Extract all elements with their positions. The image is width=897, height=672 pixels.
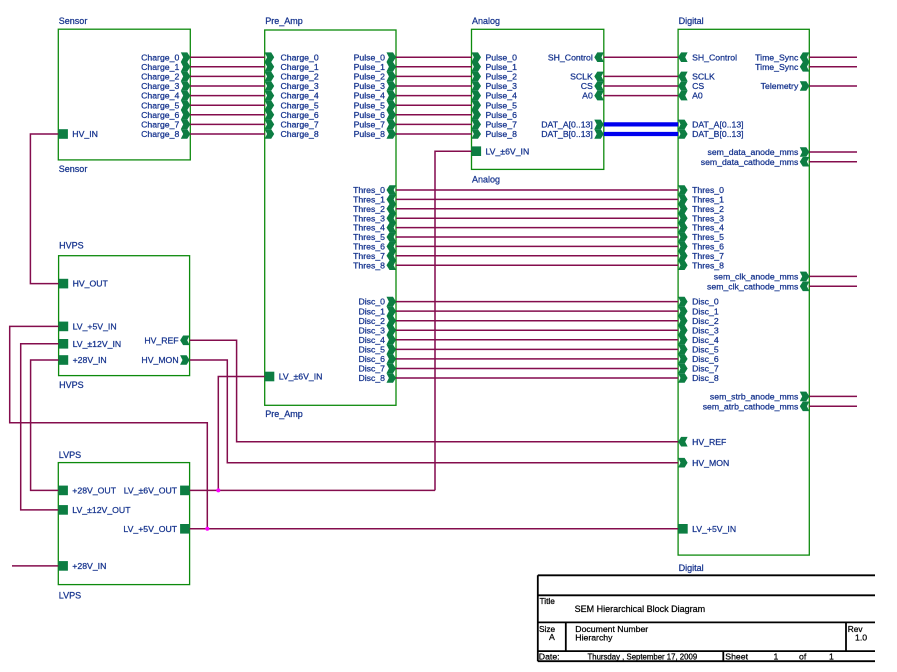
pin Pulse_4 (Pre_Amp right edge) bbox=[387, 91, 397, 101]
svg-text:Disc_1: Disc_1 bbox=[358, 306, 385, 316]
pin Pulse_8 (Pre_Amp right edge) bbox=[387, 129, 397, 139]
pin Thres_0 (Digital left edge) bbox=[678, 185, 688, 195]
svg-text:HV_OUT: HV_OUT bbox=[73, 279, 109, 289]
bus DAT_B[0..13] Analog to Digital bbox=[604, 132, 678, 136]
pin Pulse_1 (Pre_Amp right edge) bbox=[387, 62, 397, 72]
svg-text:Telemetry: Telemetry bbox=[761, 81, 799, 91]
wire LV_±6V net: LVPS LV_±6V_OUT to riser bbox=[190, 489, 435, 491]
wire Disc_6 net Pre_Amp to Digital bbox=[396, 358, 678, 360]
pin Thres_7 (Digital left edge) bbox=[678, 251, 688, 261]
wire Charge_5 net Sensor to Pre_Amp bbox=[190, 104, 264, 106]
wire Telemetry stub from Digital right edge bbox=[809, 85, 857, 87]
wire A0 net Analog to Digital bbox=[604, 95, 678, 97]
pin HV_OUT (HVPS left edge) bbox=[59, 279, 69, 289]
svg-text:Digital: Digital bbox=[679, 16, 704, 26]
pin Time_Sync (Digital right edge, upper) bbox=[800, 52, 810, 62]
wire Charge_7 net Sensor to Pre_Amp bbox=[190, 123, 264, 125]
svg-text:Disc_8: Disc_8 bbox=[358, 373, 385, 383]
svg-text:of: of bbox=[799, 651, 807, 661]
pin Charge_8 (Sensor right edge) bbox=[181, 129, 191, 139]
wire Pulse_2 net Pre_Amp to Analog bbox=[396, 75, 472, 77]
svg-text:Disc_2: Disc_2 bbox=[692, 316, 719, 326]
svg-text:LV_+5V_IN: LV_+5V_IN bbox=[692, 524, 736, 534]
svg-text:Pulse_0: Pulse_0 bbox=[486, 52, 518, 62]
svg-text:sem_atrb_cathode_mms: sem_atrb_cathode_mms bbox=[703, 401, 799, 411]
pin Pulse_0 (Pre_Amp right edge) bbox=[387, 52, 397, 62]
pin Pulse_7 (Pre_Amp right edge) bbox=[387, 120, 397, 130]
svg-text:+28V_IN: +28V_IN bbox=[73, 355, 107, 365]
junction LV_+5V net bbox=[205, 527, 209, 531]
pin Disc_0 (Digital left edge) bbox=[678, 297, 688, 307]
svg-text:Disc_7: Disc_7 bbox=[358, 364, 385, 374]
svg-text:HVPS: HVPS bbox=[59, 241, 84, 251]
pin Disc_7 (Pre_Amp right edge) bbox=[387, 364, 397, 374]
hierarchical block Sensor outline bbox=[58, 29, 190, 160]
pin sem_strb_anode_mms (Digital right edge) bbox=[800, 392, 810, 402]
svg-text:Pre_Amp: Pre_Amp bbox=[265, 16, 303, 26]
svg-text:Disc_3: Disc_3 bbox=[358, 325, 385, 335]
pin Thres_1 (Pre_Amp right edge) bbox=[387, 195, 397, 205]
pin Thres_7 (Pre_Amp right edge) bbox=[387, 251, 397, 261]
pin A0 (Digital left edge) bbox=[678, 91, 688, 101]
svg-text:Pulse_5: Pulse_5 bbox=[354, 100, 386, 110]
pin DAT_B[0..13] (Analog right edge) bbox=[594, 129, 604, 139]
pin Disc_4 (Pre_Amp right edge) bbox=[387, 335, 397, 345]
svg-text:LVPS: LVPS bbox=[59, 450, 81, 460]
svg-text:Disc_5: Disc_5 bbox=[692, 345, 719, 355]
svg-text:LV_±6V_OUT: LV_±6V_OUT bbox=[124, 486, 178, 496]
wire Thres_7 net Digital to Pre_Amp bbox=[396, 255, 678, 257]
pin Thres_3 (Digital left edge) bbox=[678, 213, 688, 223]
svg-text:LV_±6V_IN: LV_±6V_IN bbox=[486, 146, 530, 156]
svg-text:Pulse_1: Pulse_1 bbox=[354, 62, 386, 72]
wire sem_data_anode_mms stub from Digital right edge bbox=[809, 151, 857, 153]
svg-text:Date:: Date: bbox=[539, 651, 560, 661]
svg-text:LV_±12V_OUT: LV_±12V_OUT bbox=[72, 505, 131, 515]
wire Charge_8 net Sensor to Pre_Amp bbox=[190, 133, 264, 135]
wire Thres_0 net Digital to Pre_Amp bbox=[396, 189, 678, 191]
wire Disc_7 net Pre_Amp to Digital bbox=[396, 367, 678, 369]
pin Thres_5 (Digital left edge) bbox=[678, 232, 688, 242]
pin HV_IN (Sensor left edge) bbox=[58, 129, 68, 139]
pin Thres_2 (Digital left edge) bbox=[678, 204, 688, 214]
wire Pulse_7 net Pre_Amp to Analog bbox=[396, 123, 472, 125]
hierarchical block LVPS outline bbox=[58, 463, 189, 585]
pin Pulse_8 (Analog left edge) bbox=[472, 129, 482, 139]
wire Charge_2 net Sensor to Pre_Amp bbox=[190, 75, 264, 77]
wire Thres_2 net Digital to Pre_Amp bbox=[396, 208, 678, 210]
svg-text:Disc_8: Disc_8 bbox=[692, 373, 719, 383]
svg-text:Disc_4: Disc_4 bbox=[358, 335, 385, 345]
pin Charge_4 (Sensor right edge) bbox=[181, 91, 191, 101]
svg-text:SCLK: SCLK bbox=[692, 72, 715, 82]
svg-text:Thres_8: Thres_8 bbox=[353, 260, 385, 270]
wire HV_REF net: HVPS HV_REF to Digital HV_REF bbox=[190, 340, 678, 441]
wire sem_clk_cathode_mms stub from Digital right edge bbox=[809, 285, 857, 287]
wire sem_atrb_cathode_mms stub from Digital right edge bbox=[809, 405, 857, 407]
svg-text:Disc_6: Disc_6 bbox=[358, 354, 385, 364]
svg-text:LV_+5V_IN: LV_+5V_IN bbox=[73, 322, 117, 332]
svg-text:DAT_A[0..13]: DAT_A[0..13] bbox=[541, 120, 593, 130]
pin Pulse_3 (Analog left edge) bbox=[472, 81, 482, 91]
pin DAT_A[0..13] (Analog right edge) bbox=[594, 120, 604, 130]
svg-text:Charge_8: Charge_8 bbox=[281, 129, 319, 139]
wire Thres_4 net Digital to Pre_Amp bbox=[396, 227, 678, 229]
wire Pulse_5 net Pre_Amp to Analog bbox=[396, 104, 472, 106]
pin LV_+5V_OUT (LVPS right edge) bbox=[180, 524, 190, 534]
svg-text:Disc_1: Disc_1 bbox=[692, 306, 719, 316]
pin Pulse_2 (Analog left edge) bbox=[472, 72, 482, 82]
svg-text:Digital: Digital bbox=[679, 563, 704, 573]
svg-text:Charge_7: Charge_7 bbox=[281, 120, 319, 130]
svg-text:1.0: 1.0 bbox=[855, 632, 867, 642]
wire Disc_4 net Pre_Amp to Digital bbox=[396, 339, 678, 341]
pin Pulse_7 (Analog left edge) bbox=[472, 120, 482, 130]
pin Disc_1 (Pre_Amp right edge) bbox=[387, 306, 397, 316]
wire Disc_0 net Pre_Amp to Digital bbox=[396, 301, 678, 303]
wire Charge_4 net Sensor to Pre_Amp bbox=[190, 95, 264, 97]
svg-text:Analog: Analog bbox=[472, 174, 500, 184]
pin Charge_0 (Pre_Amp left edge) bbox=[265, 52, 275, 62]
svg-text:CS: CS bbox=[692, 81, 704, 91]
svg-text:LV_±12V_IN: LV_±12V_IN bbox=[73, 339, 122, 349]
pin HV_REF (Digital left edge) bbox=[678, 437, 688, 447]
svg-text:Hierarchy: Hierarchy bbox=[575, 632, 613, 642]
pin Charge_7 (Pre_Amp left edge) bbox=[265, 120, 275, 130]
svg-text:Charge_6: Charge_6 bbox=[141, 110, 179, 120]
svg-text:SH_Control: SH_Control bbox=[548, 52, 593, 62]
wire LV_±6V net: riser to Analog LV_±6V_IN bbox=[435, 151, 472, 490]
pin HV_MON (HVPS right edge) bbox=[180, 355, 190, 365]
pin Charge_7 (Sensor right edge) bbox=[181, 120, 191, 130]
svg-text:Charge_4: Charge_4 bbox=[141, 91, 179, 101]
wire Disc_5 net Pre_Amp to Digital bbox=[396, 348, 678, 350]
svg-text:Charge_3: Charge_3 bbox=[141, 81, 179, 91]
pin Disc_5 (Pre_Amp right edge) bbox=[387, 345, 397, 355]
svg-text:Time_Sync: Time_Sync bbox=[755, 62, 799, 72]
pin Pulse_1 (Analog left edge) bbox=[472, 62, 482, 72]
wire Disc_3 net Pre_Amp to Digital bbox=[396, 329, 678, 331]
svg-text:HV_MON: HV_MON bbox=[141, 355, 178, 365]
wire Pulse_0 net Pre_Amp to Analog bbox=[396, 56, 472, 58]
svg-text:Pulse_7: Pulse_7 bbox=[486, 120, 518, 130]
pin Thres_6 (Digital left edge) bbox=[678, 242, 688, 252]
wire Disc_2 net Pre_Amp to Digital bbox=[396, 320, 678, 322]
svg-text:Disc_2: Disc_2 bbox=[358, 316, 385, 326]
svg-text:Charge_3: Charge_3 bbox=[281, 81, 319, 91]
svg-text:Pulse_1: Pulse_1 bbox=[486, 62, 518, 72]
svg-text:Sensor: Sensor bbox=[59, 164, 88, 174]
svg-text:Title: Title bbox=[540, 596, 556, 606]
svg-text:Charge_8: Charge_8 bbox=[141, 129, 179, 139]
pin HV_REF (HVPS right edge) bbox=[180, 336, 190, 346]
svg-text:CS: CS bbox=[581, 81, 593, 91]
wire Pulse_3 net Pre_Amp to Analog bbox=[396, 85, 472, 87]
wire Charge_0 net Sensor to Pre_Amp bbox=[190, 56, 264, 58]
svg-text:Sensor: Sensor bbox=[59, 16, 88, 26]
svg-text:HV_REF: HV_REF bbox=[692, 437, 726, 447]
svg-text:Pulse_4: Pulse_4 bbox=[354, 91, 386, 101]
pin CS (Analog right edge) bbox=[594, 81, 604, 91]
hierarchical block HVPS outline bbox=[59, 256, 190, 376]
svg-text:Disc_3: Disc_3 bbox=[692, 325, 719, 335]
wire Time_Sync lower stub from Digital right edge bbox=[809, 66, 857, 68]
svg-text:Charge_2: Charge_2 bbox=[281, 72, 319, 82]
svg-text:sem_strb_anode_mms: sem_strb_anode_mms bbox=[710, 392, 799, 402]
pin Pulse_3 (Pre_Amp right edge) bbox=[387, 81, 397, 91]
wire Thres_6 net Digital to Pre_Amp bbox=[396, 245, 678, 247]
pin HV_MON (Digital left edge) bbox=[678, 458, 688, 468]
wire LV_±12V net: HVPS LV_±12V_IN to LVPS LV_±12V_OUT bbox=[21, 344, 59, 510]
svg-text:sem_clk_anode_mms: sem_clk_anode_mms bbox=[714, 272, 799, 282]
pin Pulse_0 (Analog left edge) bbox=[472, 52, 482, 62]
pin Disc_6 (Digital left edge) bbox=[678, 354, 688, 364]
pin Pulse_2 (Pre_Amp right edge) bbox=[387, 72, 397, 82]
svg-text:HV_IN: HV_IN bbox=[72, 129, 98, 139]
wire CS net Analog to Digital bbox=[604, 85, 678, 87]
pin LV_+5V_IN (HVPS left edge) bbox=[59, 322, 69, 332]
pin Thres_8 (Pre_Amp right edge) bbox=[387, 260, 397, 270]
wire LV_+5V net: HVPS LV_+5V_IN down to junction bbox=[10, 326, 208, 528]
hierarchical block Digital outline bbox=[678, 29, 809, 555]
pin DAT_A[0..13] (Digital left edge) bbox=[678, 120, 688, 130]
svg-text:Pulse_6: Pulse_6 bbox=[486, 110, 518, 120]
pin Pulse_6 (Analog left edge) bbox=[472, 110, 482, 120]
wire Pulse_8 net Pre_Amp to Analog bbox=[396, 133, 472, 135]
pin +28V_OUT (LVPS left edge) bbox=[58, 486, 68, 496]
svg-text:SH_Control: SH_Control bbox=[692, 52, 737, 62]
wire Thres_1 net Digital to Pre_Amp bbox=[396, 198, 678, 200]
wire Charge_1 net Sensor to Pre_Amp bbox=[190, 66, 264, 68]
pin LV_±12V_IN (HVPS left edge) bbox=[59, 339, 69, 349]
pin Pulse_4 (Analog left edge) bbox=[472, 91, 482, 101]
svg-text:HVPS: HVPS bbox=[59, 380, 84, 390]
pin Thres_2 (Pre_Amp right edge) bbox=[387, 204, 397, 214]
svg-text:1: 1 bbox=[774, 651, 779, 661]
pin LV_±6V_OUT (LVPS right edge) bbox=[180, 486, 190, 496]
pin Disc_2 (Digital left edge) bbox=[678, 316, 688, 326]
svg-text:Charge_5: Charge_5 bbox=[141, 100, 179, 110]
pin Thres_1 (Digital left edge) bbox=[678, 195, 688, 205]
hierarchical block Pre_Amp outline bbox=[265, 30, 396, 405]
pin Disc_8 (Digital left edge) bbox=[678, 373, 688, 383]
svg-text:HV_REF: HV_REF bbox=[144, 335, 178, 345]
wire Thres_3 net Digital to Pre_Amp bbox=[396, 217, 678, 219]
svg-text:Pulse_3: Pulse_3 bbox=[486, 81, 518, 91]
pin Pulse_6 (Pre_Amp right edge) bbox=[387, 110, 397, 120]
svg-text:Sheet: Sheet bbox=[725, 651, 748, 661]
pin LV_±12V_OUT (LVPS left edge) bbox=[58, 505, 68, 515]
svg-text:LVPS: LVPS bbox=[59, 591, 81, 601]
wire Thres_8 net Digital to Pre_Amp bbox=[396, 264, 678, 266]
pin Telemetry (Digital right edge) bbox=[800, 81, 810, 91]
wire HV net: Sensor HV_IN to HVPS HV_OUT bbox=[30, 134, 58, 284]
pin DAT_B[0..13] (Digital left edge) bbox=[678, 129, 688, 139]
svg-text:Time_Sync: Time_Sync bbox=[755, 52, 799, 62]
pin A0 (Analog right edge) bbox=[594, 91, 604, 101]
junction LV_±6V net bbox=[216, 488, 220, 492]
pin SCLK (Digital left edge) bbox=[678, 72, 688, 82]
wire sem_clk_anode_mms stub from Digital right edge bbox=[809, 275, 857, 277]
pin sem_atrb_cathode_mms (Digital right edge) bbox=[800, 402, 810, 412]
wire Charge_6 net Sensor to Pre_Amp bbox=[190, 114, 264, 116]
pin Thres_3 (Pre_Amp right edge) bbox=[387, 213, 397, 223]
svg-text:DAT_B[0..13]: DAT_B[0..13] bbox=[541, 129, 593, 139]
pin Disc_7 (Digital left edge) bbox=[678, 364, 688, 374]
svg-text:+28V_IN: +28V_IN bbox=[72, 561, 106, 571]
pin Disc_4 (Digital left edge) bbox=[678, 335, 688, 345]
wire SCLK net Analog to Digital bbox=[604, 75, 678, 77]
pin Disc_3 (Digital left edge) bbox=[678, 325, 688, 335]
svg-text:LV_+5V_OUT: LV_+5V_OUT bbox=[123, 524, 177, 534]
pin CS (Digital left edge) bbox=[678, 81, 688, 91]
pin Charge_6 (Pre_Amp left edge) bbox=[265, 110, 275, 120]
wire Pulse_6 net Pre_Amp to Analog bbox=[396, 114, 472, 116]
pin SH_Control (Analog right edge) bbox=[594, 52, 604, 62]
svg-text:Analog: Analog bbox=[472, 16, 500, 26]
svg-text:Pre_Amp: Pre_Amp bbox=[265, 409, 303, 419]
svg-text:sem_data_cathode_mms: sem_data_cathode_mms bbox=[701, 157, 799, 167]
svg-text:Pulse_4: Pulse_4 bbox=[486, 91, 518, 101]
pin Charge_0 (Sensor right edge) bbox=[181, 52, 191, 62]
pin SCLK (Analog right edge) bbox=[594, 72, 604, 82]
svg-text:Charge_0: Charge_0 bbox=[281, 52, 319, 62]
wire HV_MON net: HVPS HV_MON to Digital HV_MON bbox=[190, 360, 678, 463]
pin Charge_2 (Sensor right edge) bbox=[181, 72, 191, 82]
wire Thres_5 net Digital to Pre_Amp bbox=[396, 236, 678, 238]
svg-text:Charge_4: Charge_4 bbox=[281, 91, 319, 101]
svg-text:sem_clk_cathode_mms: sem_clk_cathode_mms bbox=[707, 281, 799, 291]
svg-text:Charge_6: Charge_6 bbox=[281, 110, 319, 120]
svg-text:Pulse_8: Pulse_8 bbox=[486, 129, 518, 139]
pin LV_±6V_IN (Analog left edge) bbox=[472, 146, 482, 156]
svg-text:Pulse_2: Pulse_2 bbox=[354, 72, 386, 82]
pin Charge_5 (Pre_Amp left edge) bbox=[265, 100, 275, 110]
wire Charge_3 net Sensor to Pre_Amp bbox=[190, 85, 264, 87]
svg-text:Charge_1: Charge_1 bbox=[141, 62, 179, 72]
svg-text:Pulse_8: Pulse_8 bbox=[354, 129, 386, 139]
pin Thres_5 (Pre_Amp right edge) bbox=[387, 232, 397, 242]
svg-text:Pulse_5: Pulse_5 bbox=[486, 100, 518, 110]
pin Charge_8 (Pre_Amp left edge) bbox=[265, 129, 275, 139]
svg-text:+28V_OUT: +28V_OUT bbox=[72, 486, 116, 496]
pin sem_data_anode_mms (Digital right edge) bbox=[800, 147, 810, 157]
pin Thres_8 (Digital left edge) bbox=[678, 260, 688, 270]
svg-text:A0: A0 bbox=[582, 91, 593, 101]
pin Charge_3 (Pre_Amp left edge) bbox=[265, 81, 275, 91]
svg-text:Charge_0: Charge_0 bbox=[141, 52, 179, 62]
pin Disc_5 (Digital left edge) bbox=[678, 345, 688, 355]
pin Charge_5 (Sensor right edge) bbox=[181, 100, 191, 110]
svg-text:Charge_1: Charge_1 bbox=[281, 62, 319, 72]
pin +28V_IN (LVPS left edge) bbox=[58, 561, 68, 571]
pin sem_data_cathode_mms (Digital right edge) bbox=[800, 157, 810, 167]
svg-text:Disc_4: Disc_4 bbox=[692, 335, 719, 345]
wire SH_Control net Analog to Digital bbox=[604, 56, 678, 58]
svg-text:Disc_6: Disc_6 bbox=[692, 354, 719, 364]
wire +28V_IN stub at LVPS bbox=[12, 565, 58, 567]
svg-text:Thres_8: Thres_8 bbox=[692, 260, 724, 270]
wire Disc_1 net Pre_Amp to Digital bbox=[396, 310, 678, 312]
pin Disc_6 (Pre_Amp right edge) bbox=[387, 354, 397, 364]
svg-text:Disc_0: Disc_0 bbox=[692, 297, 719, 307]
svg-text:HV_MON: HV_MON bbox=[692, 458, 729, 468]
svg-text:Disc_7: Disc_7 bbox=[692, 364, 719, 374]
pin LV_±6V_IN (Pre_Amp left edge) bbox=[265, 372, 275, 382]
pin Thres_4 (Digital left edge) bbox=[678, 223, 688, 233]
pin Charge_3 (Sensor right edge) bbox=[181, 81, 191, 91]
svg-text:SCLK: SCLK bbox=[570, 72, 593, 82]
svg-text:DAT_B[0..13]: DAT_B[0..13] bbox=[692, 129, 744, 139]
hierarchical block Analog outline bbox=[472, 29, 604, 169]
pin LV_+5V_IN (Digital left edge) bbox=[678, 524, 688, 534]
wire LV_+5V net: LVPS LV_+5V_OUT to Digital LV_+5V_IN bbox=[190, 528, 678, 530]
svg-text:Pulse_0: Pulse_0 bbox=[354, 52, 386, 62]
svg-text:A: A bbox=[549, 632, 555, 642]
svg-text:Pulse_2: Pulse_2 bbox=[486, 72, 518, 82]
pin Pulse_5 (Pre_Amp right edge) bbox=[387, 100, 397, 110]
pin Disc_0 (Pre_Amp right edge) bbox=[387, 297, 397, 307]
pin Charge_1 (Sensor right edge) bbox=[181, 62, 191, 72]
pin Charge_2 (Pre_Amp left edge) bbox=[265, 72, 275, 82]
svg-text:Disc_5: Disc_5 bbox=[358, 345, 385, 355]
wire Disc_8 net Pre_Amp to Digital bbox=[396, 377, 678, 379]
wire Pulse_4 net Pre_Amp to Analog bbox=[396, 95, 472, 97]
wire Time_Sync upper stub from Digital right edge bbox=[809, 56, 857, 58]
pin sem_clk_cathode_mms (Digital right edge) bbox=[800, 282, 810, 292]
pin SH_Control (Digital left edge) bbox=[678, 52, 688, 62]
pin Charge_4 (Pre_Amp left edge) bbox=[265, 91, 275, 101]
svg-text:Pulse_3: Pulse_3 bbox=[354, 81, 386, 91]
title block frame bbox=[538, 574, 875, 576]
pin Pulse_5 (Analog left edge) bbox=[472, 100, 482, 110]
pin Disc_8 (Pre_Amp right edge) bbox=[387, 373, 397, 383]
svg-text:Pulse_7: Pulse_7 bbox=[354, 120, 386, 130]
wire LV_±6V net: branch to Pre_Amp LV_±6V_IN bbox=[218, 377, 264, 491]
svg-text:Charge_7: Charge_7 bbox=[141, 120, 179, 130]
wire +28V net: HVPS +28V_IN to LVPS +28V_OUT bbox=[31, 360, 59, 490]
svg-text:1: 1 bbox=[829, 651, 834, 661]
pin Thres_0 (Pre_Amp right edge) bbox=[387, 185, 397, 195]
svg-text:SEM Hierarchical Block Diagram: SEM Hierarchical Block Diagram bbox=[575, 604, 706, 614]
pin Thres_6 (Pre_Amp right edge) bbox=[387, 242, 397, 252]
pin Charge_1 (Pre_Amp left edge) bbox=[265, 62, 275, 72]
svg-text:Disc_0: Disc_0 bbox=[358, 297, 385, 307]
pin Disc_3 (Pre_Amp right edge) bbox=[387, 325, 397, 335]
wire sem_data_cathode_mms stub from Digital right edge bbox=[809, 161, 857, 163]
pin Thres_4 (Pre_Amp right edge) bbox=[387, 223, 397, 233]
svg-text:Pulse_6: Pulse_6 bbox=[354, 110, 386, 120]
wire Pulse_1 net Pre_Amp to Analog bbox=[396, 66, 472, 68]
pin Time_Sync (Digital right edge, lower) bbox=[800, 62, 810, 72]
wire sem_strb_anode_mms stub from Digital right edge bbox=[809, 395, 857, 397]
pin Charge_6 (Sensor right edge) bbox=[181, 110, 191, 120]
svg-text:LV_±6V_IN: LV_±6V_IN bbox=[279, 372, 323, 382]
svg-text:A0: A0 bbox=[692, 91, 703, 101]
svg-text:DAT_A[0..13]: DAT_A[0..13] bbox=[692, 120, 744, 130]
pin sem_clk_anode_mms (Digital right edge) bbox=[800, 272, 810, 282]
svg-text:Thursday , September 17, 2009: Thursday , September 17, 2009 bbox=[588, 652, 698, 661]
pin Disc_1 (Digital left edge) bbox=[678, 306, 688, 316]
svg-text:sem_data_anode_mms: sem_data_anode_mms bbox=[708, 147, 799, 157]
bus DAT_A[0..13] Analog to Digital bbox=[604, 122, 678, 126]
svg-text:Charge_2: Charge_2 bbox=[141, 72, 179, 82]
pin Disc_2 (Pre_Amp right edge) bbox=[387, 316, 397, 326]
pin +28V_IN (HVPS left edge) bbox=[59, 355, 69, 365]
svg-text:Charge_5: Charge_5 bbox=[281, 100, 319, 110]
